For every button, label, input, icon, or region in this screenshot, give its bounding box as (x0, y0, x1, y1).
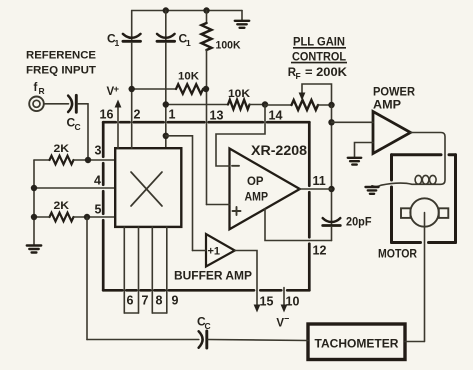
svg-text:C: C (205, 321, 211, 331)
svg-text:16: 16 (100, 108, 114, 122)
svg-text:AMP: AMP (373, 100, 401, 112)
svg-text:TACHOMETER: TACHOMETER (315, 337, 399, 351)
svg-text:CONTROL: CONTROL (292, 51, 346, 63)
svg-text:= 200K: = 200K (305, 67, 348, 79)
svg-text:MOTOR: MOTOR (378, 249, 418, 261)
svg-text:C: C (75, 122, 81, 132)
svg-text:POWER: POWER (373, 87, 416, 99)
svg-text:−: − (284, 314, 289, 324)
svg-text:10K: 10K (178, 71, 199, 83)
svg-text:10: 10 (286, 295, 300, 309)
svg-text:f: f (34, 82, 38, 94)
svg-text:2K: 2K (54, 143, 70, 155)
svg-text:REFERENCE: REFERENCE (26, 50, 96, 62)
svg-text:4: 4 (94, 174, 101, 188)
svg-text:3: 3 (95, 144, 102, 158)
svg-text:XR-2208: XR-2208 (251, 143, 308, 158)
svg-text:FREQ INPUT: FREQ INPUT (26, 65, 96, 77)
svg-text:20pF: 20pF (346, 217, 372, 229)
svg-text:R: R (39, 86, 45, 96)
svg-text:100K: 100K (216, 40, 241, 52)
svg-text:12: 12 (313, 244, 327, 258)
svg-text:11: 11 (313, 174, 326, 188)
svg-text:2: 2 (134, 108, 141, 122)
svg-text:F: F (296, 71, 301, 81)
svg-text:1: 1 (115, 38, 120, 48)
svg-text:OP: OP (247, 174, 264, 188)
svg-text:1: 1 (186, 38, 191, 48)
svg-text:5: 5 (95, 203, 102, 217)
svg-text:AMP: AMP (245, 190, 269, 204)
svg-text:15: 15 (260, 295, 274, 309)
svg-text:PLL GAIN: PLL GAIN (293, 37, 345, 49)
svg-text:9: 9 (172, 294, 179, 308)
svg-text:+1: +1 (208, 246, 221, 258)
svg-text:7: 7 (142, 294, 149, 308)
svg-text:13: 13 (210, 109, 224, 123)
svg-text:6: 6 (127, 294, 134, 308)
svg-text:2K: 2K (54, 200, 70, 212)
svg-text:BUFFER AMP: BUFFER AMP (174, 269, 252, 283)
svg-text:10K: 10K (228, 88, 250, 100)
svg-text:1: 1 (169, 108, 176, 122)
svg-text:+: + (114, 84, 120, 95)
svg-text:8: 8 (156, 294, 163, 308)
svg-text:14: 14 (269, 109, 283, 123)
